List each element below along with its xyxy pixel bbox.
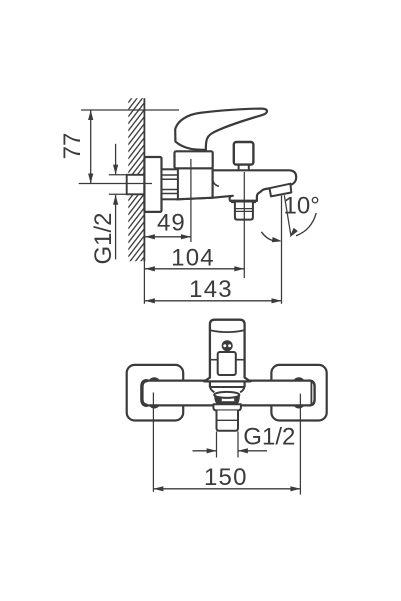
svg-text:143: 143 <box>189 276 233 303</box>
svg-text:150: 150 <box>204 464 248 491</box>
svg-text:77: 77 <box>59 133 86 160</box>
svg-text:10°: 10° <box>284 193 320 220</box>
svg-text:G1/2: G1/2 <box>90 212 117 264</box>
svg-text:G1/2: G1/2 <box>243 424 295 451</box>
svg-text:104: 104 <box>171 245 215 272</box>
svg-text:49: 49 <box>157 210 186 237</box>
